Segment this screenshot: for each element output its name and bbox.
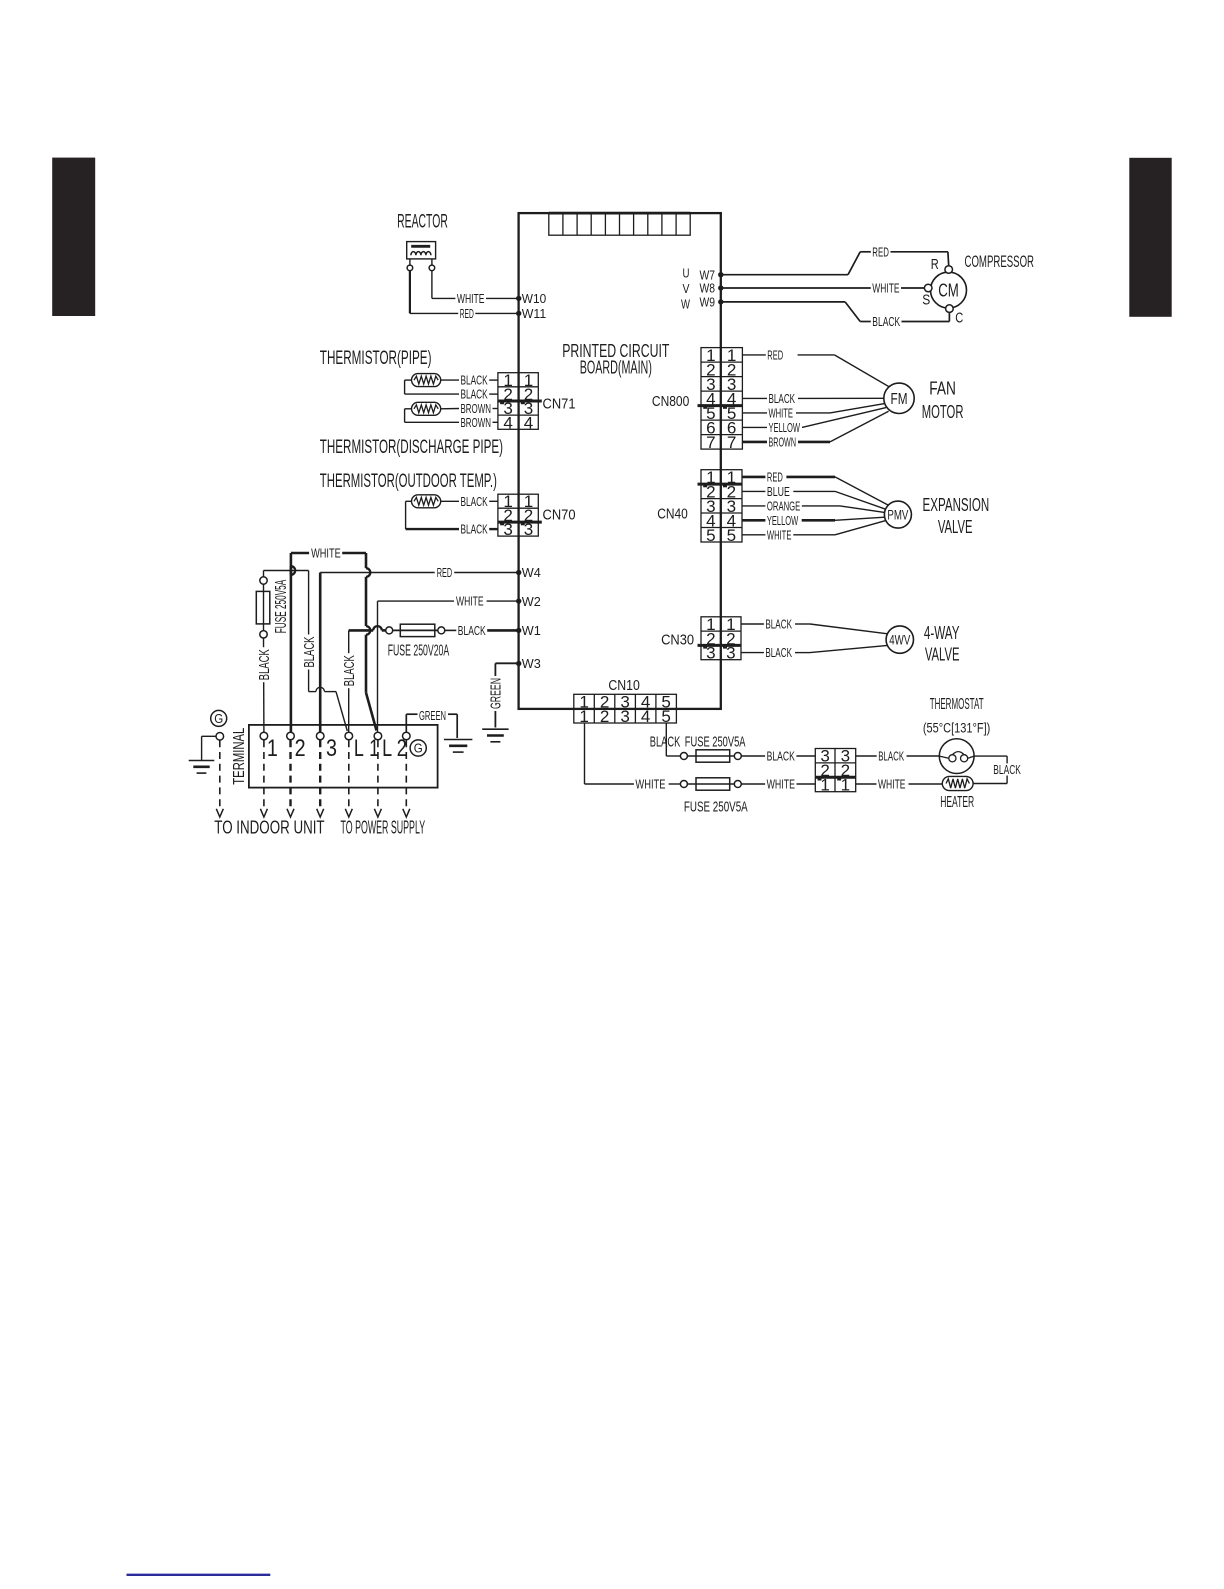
svg-text:V: V (683, 281, 690, 296)
svg-text:3: 3 (726, 644, 736, 663)
svg-text:BLACK: BLACK (993, 763, 1021, 777)
svg-text:EXPANSION: EXPANSION (923, 495, 990, 515)
svg-text:W8: W8 (700, 281, 716, 296)
svg-text:WHITE: WHITE (457, 292, 485, 306)
svg-text:CN30: CN30 (661, 633, 694, 649)
svg-text:ORANGE: ORANGE (767, 499, 800, 513)
svg-text:5: 5 (706, 526, 716, 545)
svg-text:COMPRESSOR: COMPRESSOR (965, 252, 1035, 271)
svg-text:BLACK: BLACK (461, 523, 489, 537)
svg-text:4: 4 (641, 707, 651, 726)
svg-text:W: W (681, 297, 690, 312)
svg-text:BLACK: BLACK (765, 646, 792, 660)
svg-text:3: 3 (503, 520, 513, 539)
svg-text:BLACK: BLACK (458, 624, 486, 638)
svg-text:WHITE: WHITE (635, 778, 665, 792)
svg-text:1: 1 (820, 776, 830, 795)
svg-text:WHITE: WHITE (878, 778, 906, 792)
svg-text:GREEN: GREEN (488, 678, 505, 709)
svg-text:CN800: CN800 (652, 394, 689, 410)
svg-text:W11: W11 (522, 306, 546, 321)
svg-text:4: 4 (524, 413, 534, 432)
svg-text:W10: W10 (522, 291, 546, 306)
svg-text:3: 3 (706, 644, 716, 663)
svg-text:BROWN: BROWN (461, 416, 492, 430)
svg-text:W4: W4 (522, 565, 541, 580)
svg-text:CN40: CN40 (657, 507, 688, 523)
svg-text:RED: RED (872, 245, 889, 259)
svg-text:BLACK: BLACK (341, 655, 358, 686)
svg-text:W1: W1 (522, 623, 541, 638)
svg-text:HEATER: HEATER (940, 794, 974, 811)
svg-text:WHITE: WHITE (767, 528, 792, 542)
svg-text:VALVE: VALVE (925, 644, 960, 664)
svg-text:RED: RED (437, 566, 453, 580)
svg-text:L: L (354, 735, 364, 762)
svg-text:BLACK: BLACK (878, 750, 904, 764)
svg-text:WHITE: WHITE (872, 282, 899, 296)
svg-text:G: G (214, 711, 223, 726)
svg-text:7: 7 (727, 433, 737, 452)
svg-text:RED: RED (767, 470, 783, 484)
svg-text:2: 2 (397, 735, 407, 762)
svg-text:FM: FM (891, 391, 908, 408)
svg-text:R: R (931, 257, 939, 273)
svg-text:5: 5 (727, 526, 737, 545)
svg-text:3: 3 (620, 707, 630, 726)
svg-text:THERMISTOR(DISCHARGE PIPE): THERMISTOR(DISCHARGE PIPE) (320, 436, 503, 458)
svg-text:RED: RED (460, 307, 474, 321)
svg-text:REACTOR: REACTOR (397, 211, 448, 232)
svg-text:TO POWER SUPPLY: TO POWER SUPPLY (341, 817, 426, 837)
svg-text:CN70: CN70 (543, 508, 576, 524)
svg-text:FUSE 250V5A: FUSE 250V5A (684, 799, 748, 816)
svg-text:U: U (683, 265, 690, 280)
svg-text:C: C (955, 311, 963, 327)
svg-text:4-WAY: 4-WAY (924, 623, 960, 643)
svg-text:2: 2 (295, 735, 306, 762)
svg-text:THERMISTOR(OUTDOOR TEMP.): THERMISTOR(OUTDOOR TEMP.) (320, 470, 497, 492)
svg-text:4: 4 (503, 413, 513, 432)
svg-text:2: 2 (600, 707, 610, 726)
svg-text:G: G (414, 741, 423, 756)
svg-text:BLACK: BLACK (461, 388, 489, 402)
svg-text:BROWN: BROWN (769, 435, 797, 449)
svg-text:WHITE: WHITE (767, 778, 795, 792)
svg-text:BLACK: BLACK (765, 618, 792, 632)
svg-text:BLACK: BLACK (301, 637, 318, 668)
svg-text:BLACK: BLACK (256, 649, 273, 680)
svg-text:W2: W2 (522, 594, 541, 609)
svg-text:GREEN: GREEN (419, 709, 446, 723)
svg-text:PMV: PMV (887, 507, 908, 523)
svg-text:YELLOW: YELLOW (769, 421, 801, 435)
svg-text:W3: W3 (522, 656, 541, 671)
svg-text:FAN: FAN (929, 379, 956, 399)
svg-text:FUSE 250V5A: FUSE 250V5A (685, 733, 746, 750)
svg-text:TO INDOOR UNIT: TO INDOOR UNIT (214, 817, 324, 837)
svg-text:RED: RED (767, 348, 783, 362)
svg-text:WHITE: WHITE (456, 595, 484, 609)
svg-text:WHITE: WHITE (311, 547, 341, 561)
svg-text:FUSE 250V5A: FUSE 250V5A (273, 580, 290, 634)
svg-text:VALVE: VALVE (938, 517, 973, 537)
svg-text:MOTOR: MOTOR (922, 402, 964, 422)
svg-text:BLACK: BLACK (650, 733, 681, 750)
svg-text:W9: W9 (700, 295, 716, 310)
svg-text:BLACK: BLACK (461, 374, 489, 388)
svg-text:BLACK: BLACK (767, 750, 796, 764)
svg-text:BLACK: BLACK (872, 315, 900, 329)
svg-text:THERMISTOR(PIPE): THERMISTOR(PIPE) (320, 347, 432, 369)
svg-text:L: L (382, 735, 392, 762)
svg-text:BROWN: BROWN (461, 402, 492, 416)
svg-text:CN71: CN71 (543, 396, 576, 412)
svg-text:FUSE 250V20A: FUSE 250V20A (388, 642, 450, 659)
svg-text:1: 1 (841, 776, 851, 795)
svg-text:WHITE: WHITE (769, 406, 794, 420)
svg-text:CN10: CN10 (608, 678, 640, 694)
svg-text:(55°C[131°F]): (55°C[131°F]) (923, 721, 990, 737)
svg-text:1: 1 (267, 735, 278, 762)
svg-text:3: 3 (524, 520, 534, 539)
svg-text:BOARD(MAIN): BOARD(MAIN) (580, 357, 652, 377)
svg-text:3: 3 (326, 735, 337, 762)
svg-text:4WV: 4WV (889, 632, 910, 647)
svg-text:CM: CM (938, 281, 959, 301)
svg-text:BLUE: BLUE (767, 485, 790, 499)
svg-text:THERMOSTAT: THERMOSTAT (930, 696, 984, 713)
svg-text:TERMINAL: TERMINAL (231, 727, 248, 784)
svg-text:7: 7 (706, 433, 716, 452)
svg-text:S: S (922, 292, 930, 308)
svg-text:BLACK: BLACK (769, 392, 796, 406)
svg-text:BLACK: BLACK (461, 495, 489, 509)
svg-text:YELLOW: YELLOW (767, 514, 798, 528)
